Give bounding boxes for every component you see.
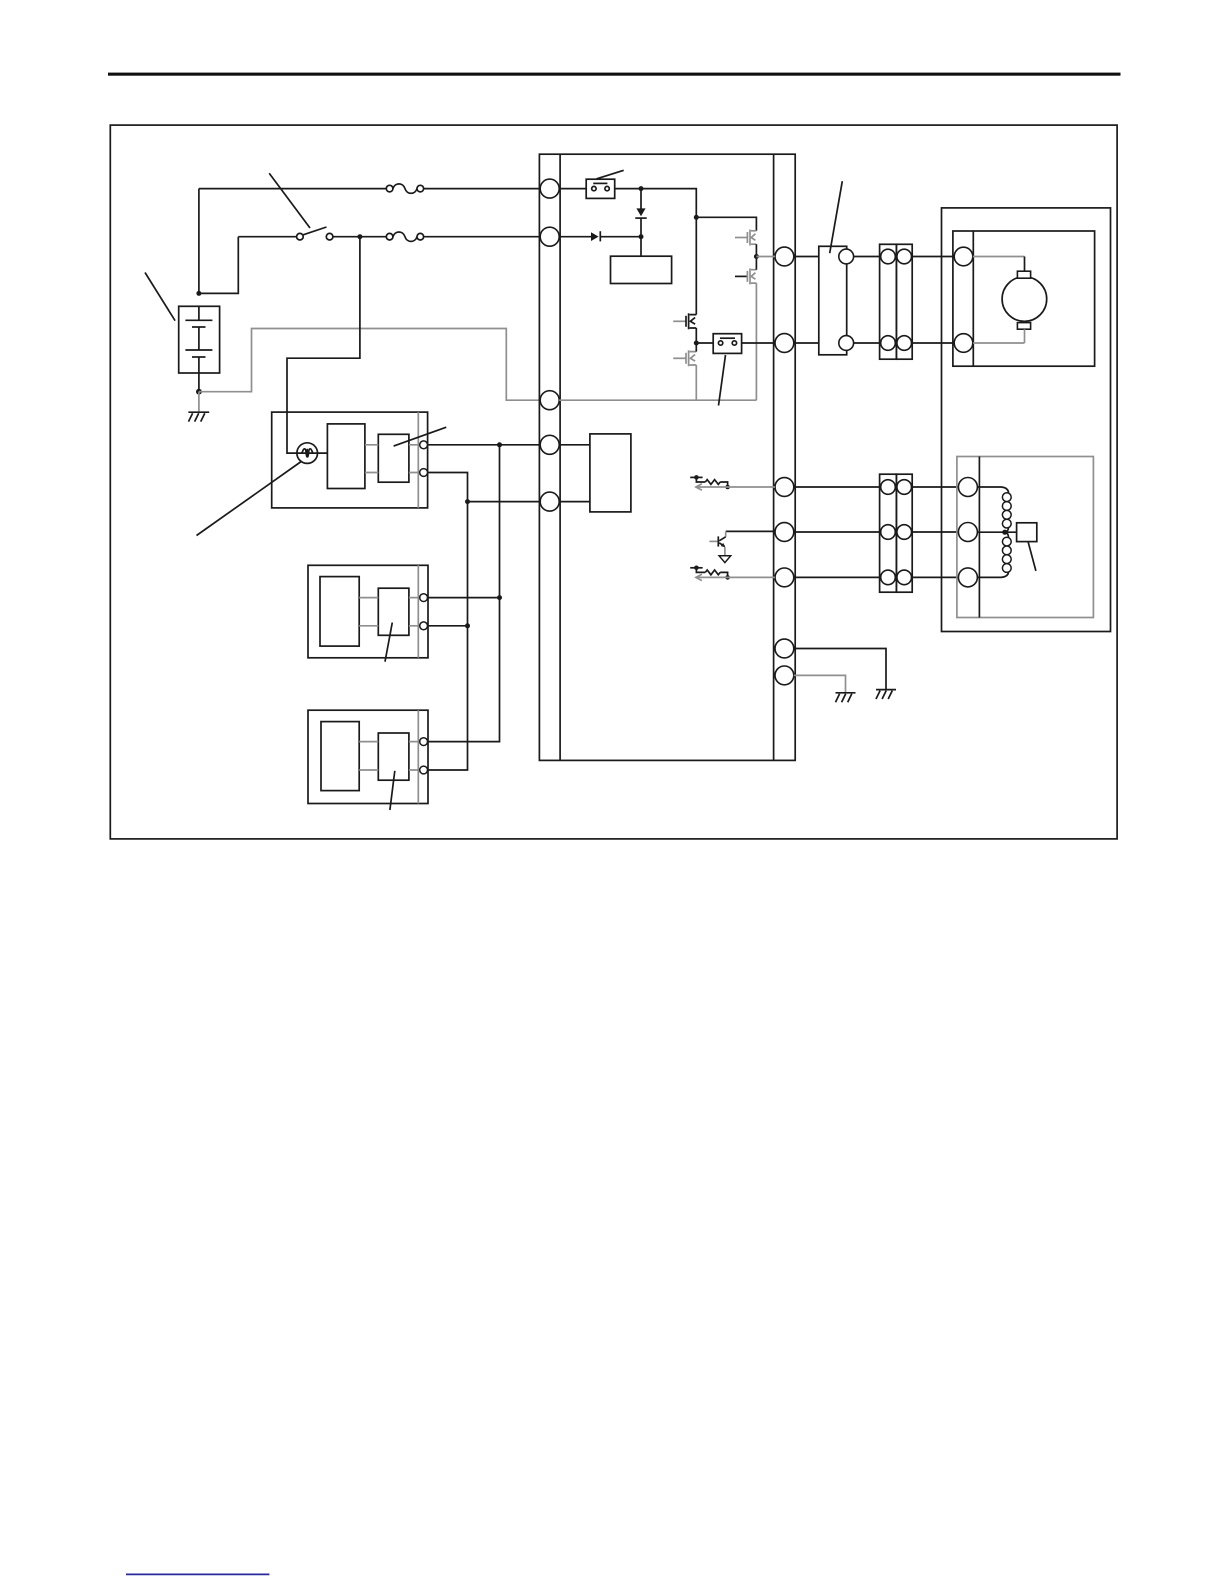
terminal lever2 A [420, 738, 428, 746]
ECU pin R2 [775, 334, 794, 353]
coupler sensor half A [880, 474, 897, 592]
lever 2 unit block [321, 722, 359, 791]
relay 2 [713, 334, 741, 354]
wire key switch junction down to indicator lamp [287, 237, 360, 453]
lever 2 connector strip (gray) [417, 710, 419, 803]
wire fuse 2 to ECU pin 2 [424, 236, 541, 238]
lever 2 contact block [378, 733, 409, 780]
ground ECU 1 [876, 690, 896, 699]
ECU pin L3 [540, 391, 559, 410]
ECU pin R1 [775, 247, 794, 266]
trim sensor wiper block [1017, 523, 1037, 542]
wire battery+ up to main fuse line [198, 189, 200, 294]
lever switch assembly 1 [308, 565, 428, 658]
terminal lever1 B [420, 622, 428, 630]
wire main supply to fuse 1 [199, 188, 386, 190]
node motor drive junction A [694, 341, 699, 346]
footer blue line [126, 1573, 269, 1575]
wire junction B to pin R1 (gray) [756, 256, 775, 258]
wire junction A to relay 2 [696, 342, 713, 344]
transistor Q4 MOSFET (gray) [673, 350, 696, 366]
wire lever 2 links (gray) [359, 742, 420, 770]
wire battery+ to key switch line [199, 237, 238, 294]
wire pin L4 to block [559, 444, 590, 446]
terminal lever2 B [420, 766, 428, 774]
sensor pin 3 [958, 568, 977, 587]
relay 1 [586, 170, 624, 198]
wire Q2 source to ground bus (gray) [755, 283, 757, 400]
wire pin L1 to relay 1 [559, 188, 586, 190]
node relay output junction [639, 186, 644, 191]
wire relay 2 to pin R2 [742, 342, 775, 344]
coupler sensor pins [881, 480, 912, 585]
wire pins R3 R4 R5 to coupler sensor [794, 487, 880, 577]
wire motor pin1 to brush (gray then dark) [973, 256, 1025, 258]
wire lever1 B to branch [428, 625, 468, 627]
coupler motor pins [881, 249, 912, 350]
annotation pointer lever 2 [390, 771, 395, 810]
sensor feedback resistor row R3 [690, 475, 775, 490]
sensor pin 1 [958, 478, 977, 497]
transistor Q1 MOSFET (gray) [735, 230, 756, 246]
potentiometer winding upper [977, 487, 1011, 532]
terminal lever1 A [420, 594, 428, 602]
ECU right connector bar [773, 154, 775, 760]
battery [179, 306, 220, 391]
node key switch junction [357, 234, 362, 239]
transistor Q3 MOSFET [673, 313, 696, 329]
ECU pin L5 [540, 492, 559, 511]
main switch connector strip (gray) [417, 412, 419, 508]
main switch contact block [378, 434, 409, 482]
annotation pointer lamp [197, 462, 302, 536]
page top rule [108, 73, 1121, 76]
ECU pin L2 [540, 227, 559, 246]
transistor Q2 MOSFET (gray) [735, 268, 756, 284]
wire coupler to sensor box [912, 487, 959, 577]
wire coupler to motor box [912, 257, 955, 344]
connector block motor [819, 246, 847, 354]
motor pin 2 [954, 334, 973, 353]
annotation pointer main switch [394, 427, 447, 446]
trim sensor box (gray) [957, 457, 1094, 618]
node junction L4 branch [497, 442, 502, 447]
wire bridge top cross [696, 217, 756, 231]
wire lamp to switch unit [297, 452, 328, 454]
node motor drive junction B [754, 254, 759, 259]
potentiometer winding lower [977, 532, 1011, 577]
wire block links (gray) [365, 445, 378, 473]
wire pin L2 to diode D2 [559, 236, 591, 238]
ground battery [188, 412, 209, 421]
connector terminal M2 [839, 336, 854, 351]
ECU pin L1 [540, 179, 559, 198]
wire fuse 1 to ECU pin 1 [424, 188, 541, 190]
coupler motor half B [896, 244, 912, 359]
sensor feedback resistor row R5 [690, 566, 775, 581]
wire connector to coupler motor rows [854, 257, 880, 344]
wire pin L5 to block [559, 501, 590, 503]
node battery positive [196, 291, 201, 296]
wire Q1 to Q2 leg [755, 244, 757, 270]
ECU pin R4 [775, 523, 794, 542]
wire lever1 A to branch [428, 597, 500, 599]
diode D2 (right) [591, 231, 639, 241]
wire relay 1 output [615, 189, 697, 315]
lever 1 connector strip (gray) [417, 565, 419, 658]
node battery negative [196, 389, 202, 395]
coupler sensor half B [896, 474, 912, 592]
wire key switch to fuse 2 [333, 236, 386, 238]
battery annotation pointer [145, 273, 175, 321]
key switch [297, 227, 333, 240]
wire battery- to ECU ground pin (gray) [199, 329, 540, 401]
regulator block [611, 256, 672, 283]
CPU interface block [590, 434, 631, 512]
annotation pointer relay 2 [719, 355, 726, 406]
node MOSFET bridge top junction [694, 215, 699, 220]
wire Q4 source to ground bus (gray) [695, 365, 697, 400]
wire battery branch to key switch [238, 236, 296, 238]
wire internal ground bus (gray) [559, 399, 756, 401]
ECU pin L4 [540, 435, 559, 454]
wire pin R7 to ground (gray) [794, 675, 846, 692]
wire sensor pin2 to wiper [977, 531, 1016, 533]
node diode junction [639, 234, 644, 239]
ECU pin R7 [775, 666, 794, 685]
ECU left connector bar [559, 154, 561, 760]
wire lever 1 links (gray) [359, 598, 420, 626]
wire battery- to ground [198, 392, 200, 412]
wire Q3 to Q4 leg [695, 328, 697, 352]
wire contact to terminals (gray) [409, 445, 420, 473]
node lever1 A junction [497, 595, 502, 600]
annotation pointer lever 1 [385, 623, 392, 662]
wire branch down to lever 1 [428, 445, 500, 742]
sensor connector strip [978, 457, 980, 618]
wire branch down to lever 2 [428, 502, 468, 770]
node junction L5 branch [465, 499, 470, 504]
ECU pin R6 [775, 639, 794, 658]
annotation pointer connector [830, 181, 843, 253]
ECU box [539, 154, 795, 760]
ECU pin R5 [775, 568, 794, 587]
wire pin R2 to connector [794, 342, 819, 344]
fuse F2 [386, 232, 423, 241]
power trim unit outer box [942, 208, 1111, 632]
motor M [1002, 271, 1047, 329]
ground ECU 2 [836, 693, 856, 702]
indicator lamp [297, 443, 318, 464]
wire pin R6 to ground [794, 649, 886, 690]
transistor Q5 row R4 [709, 531, 775, 562]
motor pin 1 [954, 247, 973, 266]
annotation pointer sensor [1028, 542, 1036, 571]
motor box [953, 231, 1095, 366]
node lever1 B junction [465, 623, 470, 628]
fuse F1 [386, 184, 423, 193]
wire terminal 2 to ECU pin L5 [428, 473, 541, 502]
lever 1 unit block [320, 577, 359, 647]
lever 1 contact block [378, 588, 409, 635]
diode D1 (down) [635, 189, 646, 257]
diagram frame [110, 125, 1117, 839]
wire pin R1 to connector [794, 256, 819, 258]
node wiper tap [1002, 530, 1007, 535]
lever switch assembly 2 [308, 710, 428, 803]
terminal main switch 2 [420, 469, 428, 477]
wire terminal 1 to ECU pin L4 [428, 444, 541, 446]
terminal main switch 1 [420, 441, 428, 449]
annotation pointer to key switch [269, 173, 310, 228]
main switch assembly [272, 412, 428, 508]
ECU pin R3 [775, 478, 794, 497]
main switch unit block [327, 424, 365, 489]
motor connector strip [972, 231, 974, 366]
coupler motor half A [880, 244, 897, 359]
wire motor brush to pin 2 (gray) [973, 329, 1025, 343]
connector terminal M1 [839, 249, 854, 264]
sensor pin 2 [958, 523, 977, 542]
